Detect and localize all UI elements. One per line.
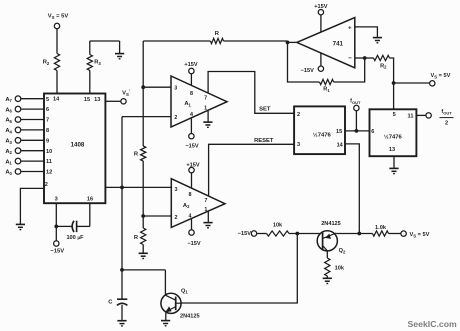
- svg-text:2N4125: 2N4125: [321, 221, 341, 227]
- svg-text:16: 16: [87, 197, 93, 203]
- svg-text:11: 11: [46, 159, 52, 165]
- svg-text:3: 3: [297, 142, 300, 148]
- svg-text:3: 3: [55, 197, 58, 203]
- svg-text:RESET: RESET: [254, 138, 274, 144]
- svg-text:15: 15: [336, 129, 342, 135]
- svg-text:7: 7: [204, 96, 207, 102]
- svg-text:100 μF: 100 μF: [66, 235, 84, 241]
- svg-text:A1: A1: [5, 159, 12, 165]
- svg-text:4: 4: [189, 213, 192, 219]
- svg-text:14: 14: [53, 96, 60, 102]
- svg-text:A4: A4: [5, 128, 12, 134]
- svg-text:fOUT: fOUT: [350, 99, 361, 105]
- svg-text:−15V: −15V: [187, 241, 200, 247]
- svg-text:2: 2: [445, 121, 448, 127]
- svg-text:10k: 10k: [273, 223, 283, 229]
- svg-text:A6: A6: [5, 107, 12, 113]
- svg-text:A0: A0: [5, 170, 12, 176]
- svg-text:5: 5: [393, 112, 396, 118]
- svg-text:15: 15: [84, 97, 90, 103]
- svg-text:5: 5: [46, 97, 49, 103]
- svg-text:Q2: Q2: [339, 248, 346, 254]
- svg-text:VS = 5V: VS = 5V: [431, 73, 451, 79]
- svg-text:A7: A7: [5, 97, 12, 103]
- svg-text:−15V: −15V: [50, 249, 64, 255]
- svg-text:741: 741: [333, 40, 344, 47]
- svg-text:14: 14: [337, 143, 344, 149]
- svg-text:A2: A2: [5, 149, 12, 155]
- svg-text:VS = 5V: VS = 5V: [48, 14, 69, 20]
- svg-text:4: 4: [190, 112, 193, 118]
- svg-text:−15V: −15V: [301, 68, 314, 74]
- svg-text:3: 3: [175, 187, 178, 193]
- svg-text:9: 9: [46, 138, 49, 144]
- svg-text:A1: A1: [184, 101, 191, 107]
- svg-text:2: 2: [45, 182, 48, 188]
- svg-text:½7476: ½7476: [384, 134, 403, 141]
- svg-text:VS = 5V: VS = 5V: [410, 232, 430, 238]
- svg-text:7: 7: [204, 198, 207, 204]
- svg-text:fOUT: fOUT: [441, 109, 452, 115]
- svg-text:R1: R1: [323, 87, 330, 93]
- svg-text:−15V: −15V: [185, 144, 198, 150]
- svg-text:2: 2: [297, 112, 300, 118]
- svg-text:A2: A2: [183, 203, 190, 209]
- svg-text:1: 1: [204, 105, 207, 111]
- svg-text:13: 13: [94, 97, 100, 103]
- svg-text:R2: R2: [43, 60, 50, 66]
- svg-text:3: 3: [174, 85, 177, 91]
- svg-text:1408: 1408: [71, 142, 85, 149]
- svg-text:8: 8: [46, 128, 49, 134]
- svg-text:1.0k: 1.0k: [375, 225, 387, 231]
- svg-text:−: −: [348, 55, 352, 62]
- svg-text:13: 13: [389, 147, 395, 153]
- svg-text:1: 1: [204, 207, 207, 213]
- svg-text:A3: A3: [5, 139, 12, 145]
- svg-text:2: 2: [174, 115, 177, 121]
- svg-text:12: 12: [46, 170, 52, 176]
- svg-text:10k: 10k: [335, 266, 345, 272]
- svg-text:+15V: +15V: [314, 4, 327, 10]
- svg-text:SeekIC.com: SeekIC.com: [408, 319, 458, 329]
- svg-text:R2: R2: [380, 63, 387, 69]
- svg-text:2: 2: [175, 215, 178, 221]
- svg-text:8: 8: [190, 91, 193, 97]
- svg-text:7: 7: [46, 118, 49, 124]
- svg-text:−15V: −15V: [238, 231, 251, 237]
- svg-text:11: 11: [408, 113, 414, 119]
- svg-text:+15V: +15V: [184, 62, 197, 68]
- svg-text:½7476: ½7476: [313, 131, 332, 138]
- svg-text:2N4125: 2N4125: [180, 314, 200, 320]
- svg-text:6: 6: [46, 107, 49, 113]
- svg-text:A5: A5: [5, 118, 12, 124]
- svg-text:SET: SET: [259, 107, 271, 113]
- svg-text:Q1: Q1: [181, 288, 188, 294]
- svg-text:6: 6: [371, 129, 374, 135]
- svg-text:10: 10: [46, 149, 52, 155]
- svg-text:+15V: +15V: [186, 162, 199, 168]
- svg-text:R3: R3: [94, 60, 101, 66]
- svg-text:8: 8: [189, 192, 192, 198]
